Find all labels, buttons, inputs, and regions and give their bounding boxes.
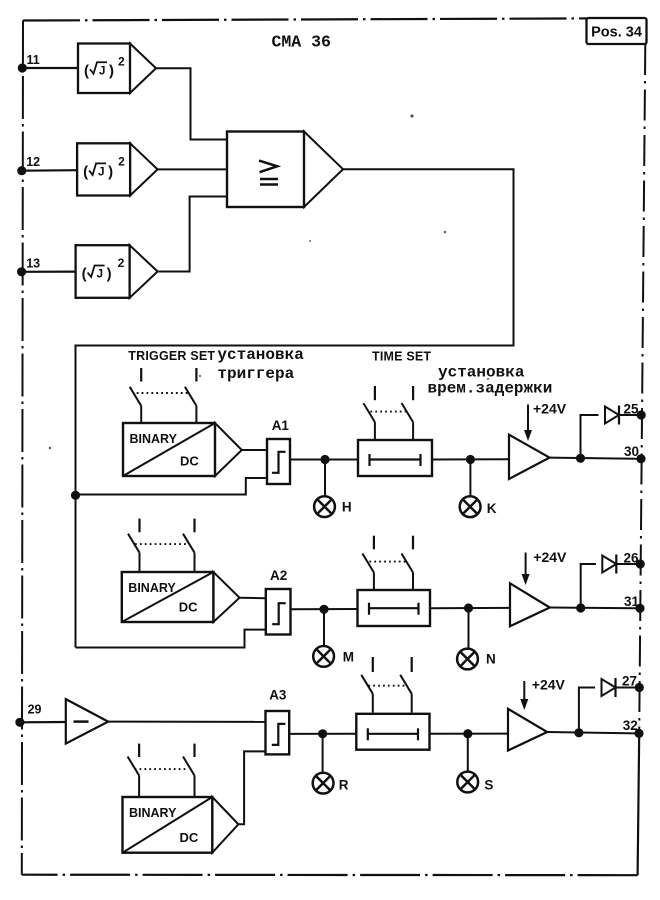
svg-text:N: N: [486, 652, 496, 667]
svg-text:(: (: [83, 163, 88, 180]
svg-text:R: R: [339, 778, 349, 793]
svg-text:DC: DC: [180, 830, 199, 845]
svg-text:(: (: [82, 266, 87, 283]
svg-text:K: K: [487, 501, 497, 516]
svg-text:BINARY: BINARY: [130, 432, 178, 446]
svg-text:32: 32: [623, 718, 638, 733]
svg-text:врем.задержки: врем.задержки: [428, 379, 553, 397]
svg-text:2: 2: [118, 256, 125, 270]
svg-text:CMA 36: CMA 36: [272, 33, 331, 52]
svg-text:30: 30: [624, 444, 639, 459]
svg-text:27: 27: [622, 674, 637, 689]
svg-text:29: 29: [28, 703, 42, 717]
svg-text:): ): [107, 266, 112, 283]
svg-text:2: 2: [118, 154, 125, 168]
svg-text:J: J: [97, 269, 103, 281]
svg-text:BINARY: BINARY: [129, 806, 177, 820]
svg-text:DC: DC: [179, 600, 198, 615]
svg-text:TRIGGER SET: TRIGGER SET: [128, 349, 215, 363]
svg-text:DC: DC: [180, 454, 199, 469]
svg-text:J: J: [98, 166, 104, 178]
svg-text:J: J: [99, 65, 105, 77]
svg-text:A3: A3: [269, 688, 287, 703]
svg-text:11: 11: [27, 53, 40, 67]
svg-text:+24V: +24V: [533, 401, 567, 417]
svg-text:(: (: [84, 62, 89, 79]
svg-text:26: 26: [624, 551, 640, 566]
svg-text:BINARY: BINARY: [128, 581, 176, 595]
svg-text:A1: A1: [272, 418, 290, 433]
svg-text:+24V: +24V: [533, 549, 567, 565]
svg-text:): ): [109, 62, 114, 79]
svg-text:13: 13: [26, 257, 40, 271]
svg-text:31: 31: [624, 594, 640, 609]
svg-text:12: 12: [26, 155, 40, 169]
svg-text:): ): [108, 163, 113, 180]
svg-text:2: 2: [118, 55, 125, 69]
svg-text:A2: A2: [270, 568, 287, 583]
svg-text:Pos. 34: Pos. 34: [591, 25, 642, 41]
svg-text:M: M: [343, 650, 354, 665]
svg-text:H: H: [342, 500, 352, 515]
svg-text:триггера: триггера: [217, 365, 294, 383]
svg-text:S: S: [484, 778, 493, 793]
svg-text:TIME SET: TIME SET: [372, 350, 431, 364]
svg-text:+24V: +24V: [532, 677, 566, 693]
svg-text:установка: установка: [217, 346, 304, 364]
svg-text:25: 25: [624, 402, 640, 417]
